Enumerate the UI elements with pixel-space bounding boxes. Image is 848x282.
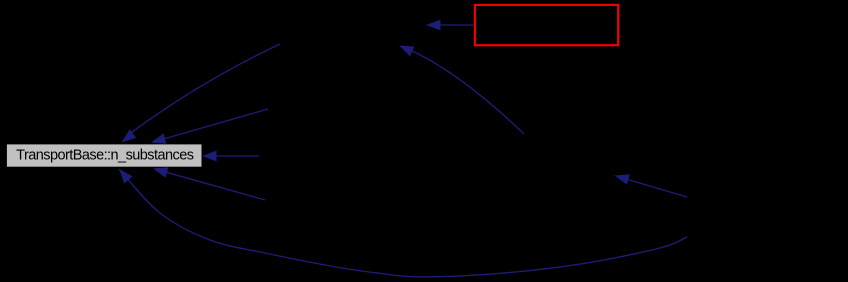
node TransportBase::n_substances — [6, 144, 202, 167]
edge E5 (straight into node bottom) — [153, 167, 265, 200]
edge E8 (short line into hidden mid-right node) — [615, 174, 688, 197]
edge E3 (horizontal into node right edge) — [202, 151, 259, 162]
node truncated (red border) — [475, 5, 618, 45]
edge Ebig (long sweep from far right into node bottom-left) — [119, 169, 687, 277]
edge E2 (straight into node top) — [151, 109, 268, 144]
edge E1 (top curve into node top-left) — [122, 44, 281, 143]
edge Ered (from red node to hidden node left of it) — [426, 20, 474, 31]
svg-text:TransportBase::n_substances: TransportBase::n_substances — [16, 147, 194, 163]
edge E7 (curve up to hidden top node bottom edge) — [399, 46, 524, 135]
